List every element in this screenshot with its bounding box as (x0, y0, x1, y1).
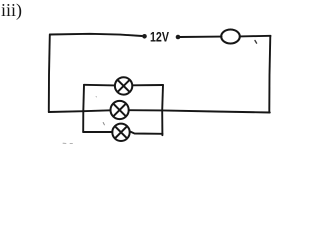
wire top branch left segment (84, 84, 115, 87)
stray pen tick near right corner (255, 41, 257, 44)
wire right vertical (269, 36, 270, 113)
wire bottom branch right segment (130, 131, 163, 133)
lamp L1 (top) (115, 77, 132, 94)
ammeter A1 (circle component) (221, 30, 240, 44)
wire right bus of parallel section (161, 85, 164, 135)
wire bottom branch left segment (83, 131, 112, 133)
wire bottom-right horizontal (middle branch right run) (162, 110, 270, 112)
wire middle branch left segment (83, 109, 110, 112)
node battery negative terminal (176, 35, 181, 40)
wire left vertical (49, 35, 50, 113)
stray faint speckles near bottom edge (63, 97, 97, 144)
lamp L3 (bottom) (112, 124, 129, 141)
node battery positive terminal (142, 34, 147, 39)
wire top horizontal left (from top-left corner to battery + terminal) (50, 34, 142, 36)
stray faint tick below middle branch (103, 123, 104, 125)
lamp L2 (middle) (111, 101, 129, 119)
wire battery to ammeter (180, 36, 222, 38)
wire middle branch right segment (129, 109, 162, 111)
wire ammeter to top-right corner (240, 35, 271, 38)
svg-text:iii): iii) (1, 0, 22, 21)
wire left bus of parallel section (82, 85, 85, 132)
svg-text:12V: 12V (150, 29, 169, 45)
wire bottom-left horizontal (middle branch left run) (49, 110, 84, 113)
wire top branch right segment (132, 84, 163, 86)
